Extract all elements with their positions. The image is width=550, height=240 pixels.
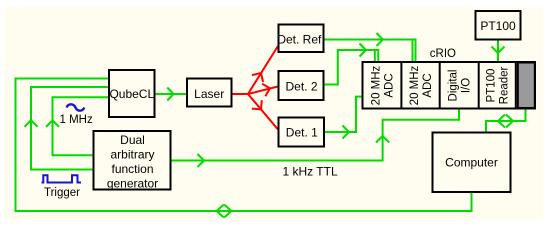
sine symbol <box>67 104 85 110</box>
svg-text:Computer: Computer <box>445 156 498 170</box>
svg-text:generator: generator <box>107 177 158 191</box>
double arrow on bottom wire <box>217 205 232 218</box>
wire Det.2-ADC1 <box>325 50 379 85</box>
label Digital I/O slot <box>448 70 473 102</box>
svg-text:Dual: Dual <box>120 133 145 147</box>
label 20 MHz ADC slot 1 <box>371 65 396 105</box>
red beam to Det.2 <box>248 84 278 97</box>
red beam to Det.Ref <box>248 46 278 94</box>
wire cRIO-Computer <box>486 110 526 132</box>
svg-text:arbitrary: arbitrary <box>110 148 154 162</box>
wire generator-QubeCL 1MHz line <box>53 97 109 155</box>
arrow on QubeCL-Laser wire <box>167 88 173 101</box>
arrow down on PT100 wire <box>492 47 505 54</box>
svg-text:PT100: PT100 <box>480 19 516 33</box>
arrow up on trigger wire <box>25 120 38 127</box>
svg-text:20 MHz: 20 MHz <box>409 65 421 105</box>
svg-text:ADC: ADC <box>384 73 396 97</box>
box Det. 2 <box>279 71 324 100</box>
svg-text:Laser: Laser <box>194 87 224 101</box>
wire PT100-reader <box>497 41 499 62</box>
svg-text:QubeCL: QubeCL <box>109 87 154 101</box>
label PT100 Reader slot <box>486 66 511 104</box>
box Dual arbitrary function generator <box>94 131 171 191</box>
svg-text:1 kHz TTL: 1 kHz TTL <box>283 165 338 179</box>
wire generator-DigitalIO 1kHz TTL <box>172 109 460 161</box>
svg-text:Digital: Digital <box>448 70 460 102</box>
arrow on Det.Ref wire <box>377 33 384 46</box>
svg-text:ADC: ADC <box>422 73 434 97</box>
svg-text:Det. Ref.: Det. Ref. <box>277 33 324 47</box>
svg-text:Reader: Reader <box>499 66 511 104</box>
box Laser <box>187 79 232 107</box>
arrow up on 1MHz wire <box>46 120 59 127</box>
double arrow on cRIO-Computer wire <box>498 115 513 128</box>
red beam to Det.1 <box>248 94 278 130</box>
trigger symbol <box>42 175 82 182</box>
svg-text:20 MHz: 20 MHz <box>371 65 383 105</box>
label 20 MHz ADC slot 2 <box>409 65 434 105</box>
arrow on Det.1 wire <box>343 126 350 139</box>
wire generator-QubeCL trigger line <box>31 87 108 170</box>
svg-text:function: function <box>111 162 153 176</box>
box QubeCL <box>109 70 155 117</box>
svg-text:Det. 1: Det. 1 <box>286 126 318 140</box>
svg-text:I/O: I/O <box>461 78 473 93</box>
wire QubeCL-Laser <box>156 93 187 95</box>
box Det. Ref. <box>277 25 324 53</box>
wire QubeCL-Computer bottom loop <box>16 79 472 212</box>
box Computer <box>433 133 511 193</box>
svg-text:Det. 2: Det. 2 <box>285 80 317 94</box>
box PT100 <box>476 11 521 40</box>
arrow on TTL wire horizontal <box>198 154 205 167</box>
svg-text:PT100: PT100 <box>486 69 498 103</box>
arrow on Det.2 wire <box>360 44 367 57</box>
svg-text:1 MHz: 1 MHz <box>60 114 93 126</box>
cRIO chassis <box>363 62 536 109</box>
svg-text:cRIO: cRIO <box>430 48 456 60</box>
arrow on TTL wire vertical <box>376 136 389 143</box>
red beam Laser-junction <box>233 93 249 95</box>
box Det. 1 <box>279 118 325 147</box>
cRIO gray module <box>518 63 535 109</box>
wire Det.1-cRIO <box>325 97 362 132</box>
svg-text:Trigger: Trigger <box>44 187 80 199</box>
wire Det.Ref-ADC2 <box>325 40 416 62</box>
